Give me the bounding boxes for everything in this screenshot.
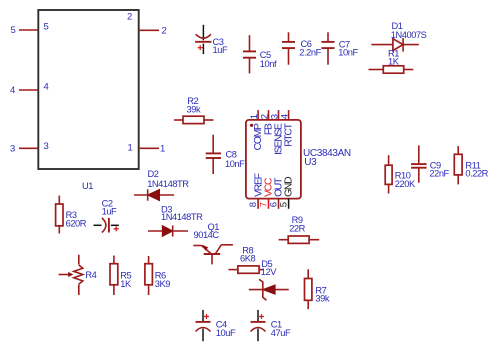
svg-text:39k: 39k	[315, 294, 329, 304]
svg-text:2.2nF: 2.2nF	[299, 48, 321, 58]
svg-text:1: 1	[128, 143, 133, 154]
capacitor C2 (polarized)	[94, 198, 119, 232]
diode D1	[371, 21, 426, 51]
resistor R1	[369, 48, 414, 73]
svg-text:D2: D2	[148, 169, 159, 179]
svg-text:U3: U3	[304, 157, 317, 168]
U3 pin 4 RTCT	[280, 110, 295, 147]
resistor R3	[56, 196, 87, 234]
svg-text:5: 5	[279, 202, 290, 207]
svg-text:220K: 220K	[395, 179, 416, 189]
svg-text:22R: 22R	[289, 224, 305, 234]
svg-text:5: 5	[11, 25, 16, 36]
svg-text:10nf: 10nf	[260, 59, 277, 69]
svg-text:R4: R4	[85, 270, 96, 280]
U3 pin 8 VREF	[248, 173, 264, 208]
svg-text:RTCT: RTCT	[284, 122, 295, 146]
resistor R7	[305, 269, 330, 309]
resistor R6	[145, 256, 170, 295]
resistor R2	[174, 96, 214, 124]
svg-text:9014C: 9014C	[194, 230, 220, 240]
capacitor C6	[282, 32, 322, 64]
U1 pin 3 wire	[10, 141, 49, 155]
potentiometer R4	[59, 255, 97, 295]
capacitor C3 (polarized)	[195, 25, 228, 55]
resistor R5	[110, 256, 132, 296]
svg-text:GND: GND	[284, 177, 295, 197]
capacitor C4 (polarized)	[196, 310, 236, 341]
U1 pin 2 wire	[127, 12, 167, 37]
U3 pin 6 OUT	[269, 177, 285, 209]
svg-text:U1: U1	[82, 181, 93, 191]
U3 pin 2 FB	[260, 110, 275, 135]
U3 pin 1 COMP	[249, 110, 264, 150]
svg-text:3: 3	[10, 144, 15, 155]
svg-text:1K: 1K	[120, 279, 132, 289]
svg-text:1: 1	[249, 114, 260, 119]
svg-text:0.22R: 0.22R	[465, 169, 488, 179]
svg-text:2: 2	[127, 12, 132, 23]
svg-text:6K8: 6K8	[240, 253, 255, 263]
svg-text:1uF: 1uF	[102, 207, 117, 217]
svg-text:8: 8	[248, 202, 259, 207]
resistor R10	[385, 155, 416, 193]
resistor R8	[229, 246, 264, 274]
svg-text:4: 4	[280, 114, 291, 119]
svg-text:1N4007S: 1N4007S	[391, 30, 427, 40]
svg-text:1uF: 1uF	[213, 45, 228, 55]
diode D3	[148, 204, 203, 236]
capacitor C8	[206, 135, 245, 174]
capacitor C9	[411, 145, 449, 182]
connector U1 body	[38, 10, 138, 191]
transistor Q1	[193, 222, 233, 264]
U3 pin 3 ISENSE	[270, 110, 285, 155]
op-amp U3 UC3843AN body	[246, 120, 351, 199]
svg-text:10uF: 10uF	[216, 328, 236, 338]
capacitor C7	[322, 32, 359, 64]
svg-text:1: 1	[160, 144, 165, 155]
svg-text:1N4148TR: 1N4148TR	[161, 212, 203, 222]
svg-text:1K: 1K	[388, 57, 400, 67]
svg-text:2: 2	[162, 25, 167, 36]
capacitor C1 (polarized)	[251, 310, 291, 341]
svg-text:12V: 12V	[261, 267, 277, 277]
U3 pin 7 VCC	[259, 177, 275, 209]
U1 pin 5 wire	[11, 22, 49, 37]
svg-text:1N4148TR: 1N4148TR	[147, 179, 189, 189]
svg-text:4: 4	[10, 85, 15, 96]
diode D2	[134, 169, 189, 201]
U1 pin 1 wire	[128, 143, 166, 155]
resistor R11	[454, 146, 488, 184]
svg-text:620R: 620R	[66, 219, 87, 229]
capacitor C5	[243, 35, 277, 73]
svg-text:5: 5	[44, 22, 49, 33]
U3 pin 5 GND	[279, 177, 295, 209]
svg-text:10nF: 10nF	[225, 159, 245, 169]
U1 pin 4 wire	[10, 82, 49, 97]
svg-text:10nF: 10nF	[338, 48, 358, 58]
svg-text:4: 4	[44, 82, 49, 93]
svg-text:22nF: 22nF	[429, 169, 449, 179]
svg-text:39k: 39k	[187, 105, 201, 115]
svg-text:3: 3	[44, 141, 49, 152]
resistor R9	[279, 215, 320, 243]
svg-text:47uF: 47uF	[271, 328, 291, 338]
zener diode D5	[249, 259, 289, 300]
svg-text:3K9: 3K9	[155, 279, 170, 289]
